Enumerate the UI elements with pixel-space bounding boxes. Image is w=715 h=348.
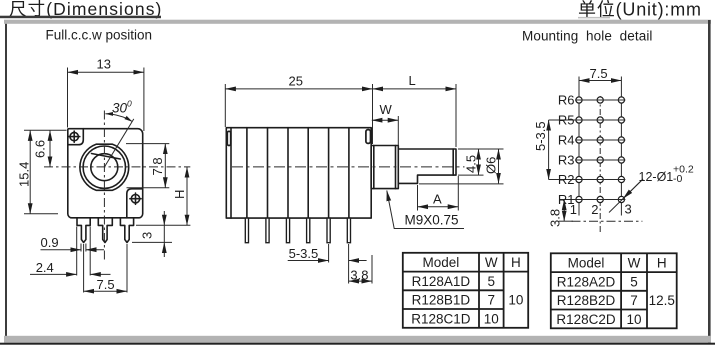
dim 25	[225, 84, 372, 144]
table 2	[551, 253, 677, 328]
svg-text:5: 5	[630, 274, 638, 289]
tab left	[227, 131, 230, 145]
svg-text:25: 25	[289, 74, 303, 89]
30 deg arc	[105, 114, 132, 122]
dim 7.8	[126, 144, 169, 188]
side center line	[232, 166, 465, 168]
screw boss top-left	[68, 129, 84, 145]
30 deg radius line	[104, 119, 133, 167]
dim 7.5 front	[84, 290, 127, 292]
ext lines bottom front	[77, 227, 127, 293]
slot chord	[92, 154, 121, 160]
frame top gray band	[4, 20, 711, 24]
svg-text:Model: Model	[423, 255, 460, 270]
svg-text:R5: R5	[558, 113, 575, 128]
svg-text:4.5: 4.5	[464, 155, 479, 173]
dim 3.8 mounting	[563, 200, 565, 222]
screw S1	[70, 132, 78, 140]
frame bottom gray band	[4, 336, 711, 343]
svg-text:7: 7	[488, 293, 496, 308]
svg-text:-0: -0	[673, 173, 682, 185]
svg-text:R128A2D: R128A2D	[557, 274, 616, 289]
svg-text:5: 5	[488, 274, 496, 289]
pins side	[245, 218, 350, 243]
dim dia6	[419, 183, 504, 185]
svg-text:R128B2D: R128B2D	[557, 293, 616, 308]
dim 5-3.5	[288, 260, 329, 262]
column line 1	[578, 77, 580, 216]
svg-text:15.4: 15.4	[17, 162, 32, 187]
dim H	[136, 224, 190, 226]
svg-text:10: 10	[626, 312, 641, 327]
svg-text:10: 10	[508, 293, 523, 308]
svg-text:0.9: 0.9	[41, 235, 59, 250]
title underline	[0, 16, 161, 19]
frame right edge	[708, 20, 711, 343]
dim 5-3.5 mounting	[548, 120, 550, 180]
svg-text:3: 3	[140, 232, 155, 239]
holes grid	[576, 97, 625, 203]
svg-text:W: W	[485, 255, 498, 270]
svg-text:Model: Model	[568, 256, 605, 271]
svg-text:R2: R2	[558, 172, 575, 187]
shaft	[398, 149, 456, 183]
shaft inner circle	[91, 154, 118, 181]
svg-text:R128C2D: R128C2D	[556, 312, 616, 327]
dim W	[397, 116, 399, 147]
svg-text:6.6: 6.6	[33, 140, 48, 158]
pin P3 front	[120, 218, 133, 243]
svg-text:R4: R4	[558, 133, 575, 148]
dim 13	[68, 68, 144, 132]
dim 7.5 mounting	[579, 80, 621, 82]
vertical center line	[103, 111, 105, 261]
dim 2.4	[30, 273, 77, 275]
svg-text:1: 1	[570, 202, 577, 217]
svg-text:3.8: 3.8	[350, 268, 368, 283]
screw boss bottom-right	[127, 189, 143, 218]
shaft chamfer	[452, 149, 454, 175]
inner left wall	[230, 128, 232, 218]
svg-text:L: L	[409, 73, 416, 88]
column line 2 dashed	[599, 96, 601, 232]
svg-text:7: 7	[630, 293, 638, 308]
svg-text:12.5: 12.5	[649, 293, 675, 308]
svg-text:13: 13	[97, 57, 111, 72]
ext lines pins side	[329, 244, 372, 284]
svg-text:单位(Unit):mm: 单位(Unit):mm	[578, 0, 702, 20]
frame left edge	[5, 24, 7, 337]
dim 3 right	[132, 241, 172, 243]
column line 3	[620, 77, 622, 216]
svg-text:5-3.5: 5-3.5	[289, 246, 319, 261]
dim 6.6	[49, 130, 51, 167]
svg-text:H: H	[657, 256, 667, 271]
table 1	[403, 253, 528, 328]
svg-text:W: W	[380, 102, 393, 117]
svg-text:R128B1D: R128B1D	[412, 293, 471, 308]
label M9X0.75	[387, 191, 464, 229]
dim 15.4	[24, 130, 67, 214]
svg-text:2.4: 2.4	[36, 260, 54, 275]
svg-text:H: H	[511, 255, 521, 270]
pin P1 front	[77, 218, 90, 243]
svg-text:30: 30	[112, 101, 128, 116]
svg-text:10: 10	[484, 311, 499, 326]
screw S2	[131, 195, 139, 203]
svg-text:W: W	[628, 256, 641, 271]
svg-text:A: A	[433, 192, 442, 207]
tab right	[366, 130, 371, 144]
body outline	[68, 129, 143, 218]
bottom dash-dot line	[572, 220, 643, 222]
svg-text:Mounting hole detail: Mounting hole detail	[522, 29, 653, 44]
body outline side	[226, 128, 371, 218]
svg-text:2: 2	[591, 202, 598, 217]
dim L	[455, 84, 457, 147]
bushing	[371, 146, 398, 189]
svg-text:7.5: 7.5	[97, 277, 115, 292]
svg-text:Full.c.c.w position: Full.c.c.w position	[46, 28, 153, 43]
pin P2 front	[98, 218, 112, 243]
svg-text:5-3.5: 5-3.5	[533, 121, 548, 151]
svg-text:R128C1D: R128C1D	[411, 311, 471, 326]
svg-text:M9X0.75: M9X0.75	[405, 213, 459, 228]
dim 4.5	[458, 149, 504, 175]
svg-text:7 8: 7 8	[150, 157, 165, 175]
svg-text:7.5: 7.5	[590, 66, 608, 81]
svg-text:3: 3	[625, 202, 632, 217]
boss outer flattened circle	[80, 144, 129, 190]
horizontal center line	[44, 166, 190, 168]
svg-text:R3: R3	[558, 153, 575, 168]
dim 0.9	[41, 249, 82, 251]
svg-text:H: H	[172, 190, 187, 199]
dim 3.8 side	[349, 280, 372, 282]
boss ring	[83, 146, 125, 188]
svg-text:3.8: 3.8	[548, 209, 563, 227]
svg-text:Ø6: Ø6	[484, 157, 499, 174]
dim A	[418, 176, 459, 211]
frame bottom dark line	[0, 343, 715, 345]
svg-text:R6: R6	[558, 93, 575, 108]
svg-text:12-Ø1: 12-Ø1	[639, 170, 674, 184]
leader 12-dia1	[609, 179, 643, 213]
svg-text:0: 0	[127, 99, 132, 109]
section lines	[247, 128, 349, 218]
row lines	[549, 100, 626, 200]
svg-text:R128A1D: R128A1D	[412, 274, 471, 289]
